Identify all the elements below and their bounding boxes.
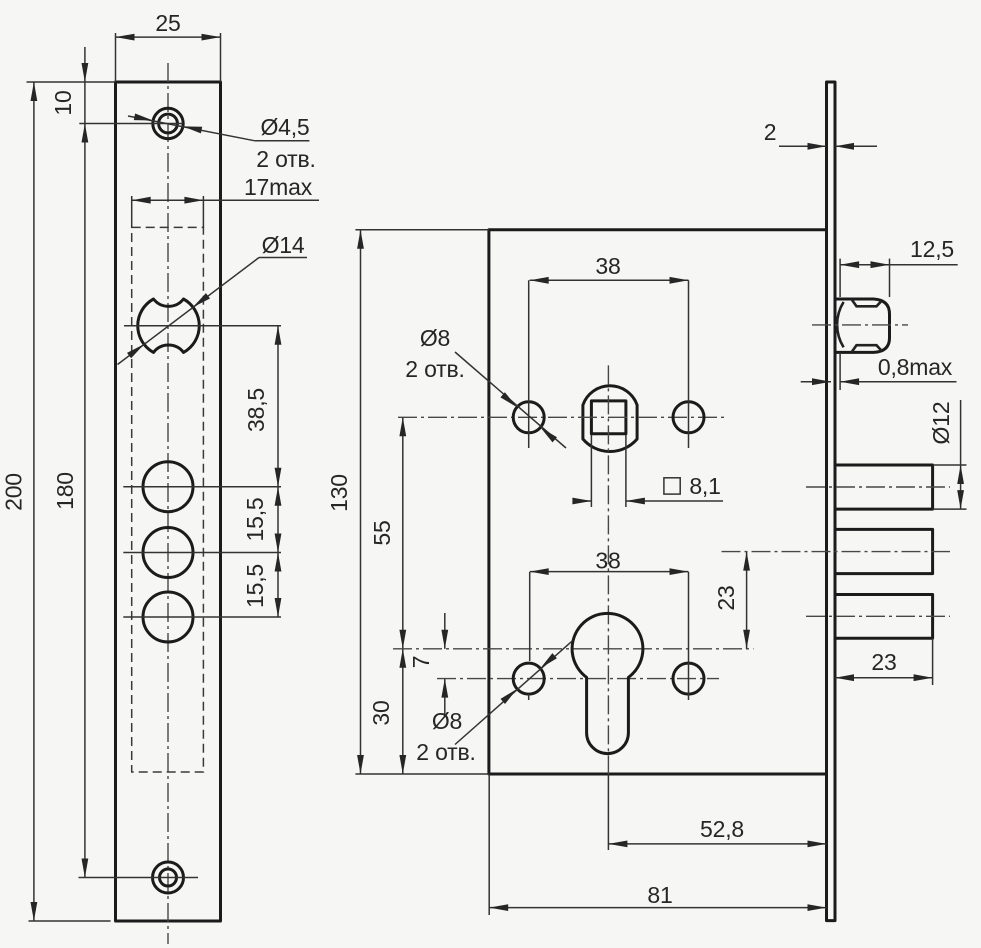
svg-text:10: 10 bbox=[50, 90, 76, 115]
svg-text:52,8: 52,8 bbox=[700, 816, 744, 842]
label diam 8 2 holes top bbox=[405, 325, 566, 448]
spindle hub outline bbox=[583, 386, 637, 452]
svg-text:38: 38 bbox=[595, 253, 620, 279]
svg-text:2 отв.: 2 отв. bbox=[405, 356, 464, 382]
svg-text:130: 130 bbox=[326, 474, 352, 512]
svg-text:55: 55 bbox=[369, 520, 395, 545]
faceplate vertical centerline bbox=[167, 63, 169, 944]
faceplate front view outline bbox=[116, 82, 221, 921]
latch bolt side view bbox=[835, 299, 890, 352]
svg-text:25: 25 bbox=[155, 10, 180, 36]
dim 17max bbox=[132, 174, 319, 228]
lock body outline bbox=[489, 230, 826, 774]
dim square 8,1 bbox=[572, 435, 723, 507]
svg-text:180: 180 bbox=[52, 472, 78, 510]
svg-text:200: 200 bbox=[1, 473, 27, 511]
svg-text:23: 23 bbox=[871, 649, 896, 675]
dim 130 bbox=[326, 230, 489, 774]
circle centerlines bbox=[123, 487, 281, 617]
label diam 14 bbox=[118, 232, 308, 365]
deadbolt 1 bbox=[835, 465, 933, 509]
dashed cutout 17max bbox=[132, 227, 204, 772]
bottom screw hole centerline bbox=[79, 877, 199, 879]
svg-text:38,5: 38,5 bbox=[243, 388, 269, 432]
dim 23 cylinder offset bbox=[713, 552, 750, 649]
bolt hole circle 2 bbox=[143, 528, 193, 578]
svg-text:2 отв.: 2 отв. bbox=[416, 739, 475, 765]
dim 38 lower bbox=[530, 548, 689, 663]
deadbolt centerlines bbox=[722, 487, 951, 616]
dim 200 bbox=[1, 82, 116, 921]
svg-text:2 отв.: 2 отв. bbox=[256, 146, 315, 172]
spindle square hole 8,1 bbox=[591, 401, 626, 434]
svg-text:Ø8: Ø8 bbox=[420, 325, 450, 351]
dim 52,8 bbox=[608, 816, 826, 847]
svg-text:30: 30 bbox=[368, 700, 394, 725]
dim 10 and 180 shared line bbox=[50, 47, 88, 878]
latch centerline bbox=[812, 324, 908, 326]
svg-text:8,1: 8,1 bbox=[689, 473, 720, 499]
dim diam 12 bbox=[928, 400, 967, 509]
dim 30 bbox=[368, 649, 406, 774]
upper hole vertical centerlines bbox=[529, 280, 689, 448]
cylinder horizontal centerline bbox=[393, 648, 754, 650]
label diam 4,5 2 holes bbox=[128, 114, 316, 172]
cylinder center extension below body bbox=[607, 774, 609, 850]
dim 25 bbox=[116, 10, 221, 82]
svg-text:17max: 17max bbox=[244, 174, 313, 200]
bolt hole circle 1 bbox=[143, 462, 193, 512]
dim 12,5 bbox=[840, 236, 958, 297]
bottom screw hole bbox=[153, 862, 184, 893]
svg-text:15,5: 15,5 bbox=[242, 564, 268, 608]
deadbolt 3 bbox=[835, 595, 933, 639]
svg-text:0,8max: 0,8max bbox=[878, 354, 953, 380]
deadbolt 2 bbox=[835, 529, 933, 573]
dim 81 bbox=[489, 774, 826, 915]
svg-text:81: 81 bbox=[647, 882, 672, 908]
euro cylinder hole bbox=[572, 613, 643, 753]
svg-text:Ø4,5: Ø4,5 bbox=[260, 114, 309, 140]
dim 38,5 and 15,5 chain bbox=[242, 326, 281, 617]
svg-text:7: 7 bbox=[408, 656, 434, 669]
dim 2 bbox=[764, 119, 877, 150]
upper holes horizontal centerline bbox=[398, 416, 727, 418]
bolt hole circle 3 bbox=[143, 592, 193, 642]
svg-text:2: 2 bbox=[764, 119, 777, 145]
dim 0,8max bbox=[801, 352, 957, 390]
svg-text:12,5: 12,5 bbox=[910, 236, 954, 262]
spindle vertical centerline bbox=[607, 365, 609, 774]
faceplate bar side view bbox=[827, 82, 836, 921]
lower holes horizontal centerline bbox=[437, 678, 719, 680]
top screw hole bbox=[153, 108, 183, 138]
upper left hole diam 8 bbox=[513, 402, 544, 433]
svg-text:Ø14: Ø14 bbox=[262, 232, 305, 258]
upper right hole bbox=[673, 402, 704, 433]
svg-text:38: 38 bbox=[595, 548, 620, 574]
dim 38 top bbox=[530, 253, 689, 284]
dim 7 bbox=[408, 613, 448, 714]
svg-text:15,5: 15,5 bbox=[242, 498, 268, 542]
lower hole vertical centerlines bbox=[529, 662, 689, 700]
latch cutout front view bbox=[138, 299, 200, 352]
dim 55 bbox=[369, 417, 406, 649]
top screw hole centerline bbox=[79, 123, 183, 125]
svg-text:Ø12: Ø12 bbox=[928, 402, 954, 445]
svg-text:Ø8: Ø8 bbox=[432, 708, 462, 734]
svg-text:23: 23 bbox=[713, 585, 739, 610]
label diam 8 2 holes bottom bbox=[416, 641, 572, 765]
latch cutout centerline bbox=[124, 325, 281, 327]
lower left hole diam 8 bbox=[513, 663, 544, 694]
dim 23 bolt length bbox=[835, 638, 933, 685]
lower right hole bbox=[673, 663, 704, 694]
